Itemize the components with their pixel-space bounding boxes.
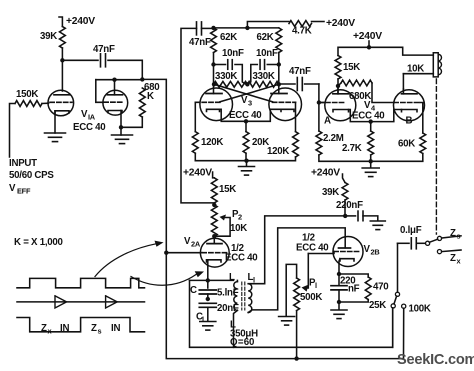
- svg-text:+240V: +240V: [311, 168, 340, 179]
- svg-text:2: 2: [238, 213, 242, 222]
- svg-text:120K: 120K: [267, 146, 289, 157]
- svg-text:10K: 10K: [407, 64, 424, 75]
- svg-text:V: V: [364, 244, 371, 255]
- svg-text:15K: 15K: [343, 62, 360, 73]
- svg-text:120K: 120K: [201, 137, 223, 148]
- svg-text:L: L: [229, 272, 235, 283]
- svg-text:Z: Z: [41, 323, 47, 334]
- svg-text:+240V: +240V: [353, 31, 382, 42]
- svg-text:+240V: +240V: [326, 18, 355, 29]
- svg-text:l: l: [253, 276, 255, 285]
- svg-text:4.7K: 4.7K: [292, 26, 312, 37]
- svg-text:10K: 10K: [230, 223, 247, 234]
- svg-text:Q = 60: Q = 60: [230, 337, 254, 348]
- svg-text:500K: 500K: [300, 292, 322, 303]
- svg-text:l: l: [315, 281, 317, 290]
- svg-text:+240V: +240V: [66, 16, 95, 27]
- svg-text:ECC 40: ECC 40: [225, 253, 257, 264]
- svg-text:Z: Z: [450, 228, 456, 239]
- svg-text:Z: Z: [91, 323, 97, 334]
- svg-text:ECC 40: ECC 40: [73, 122, 105, 133]
- svg-text:IA: IA: [88, 113, 96, 122]
- svg-text:10nF: 10nF: [222, 48, 244, 59]
- svg-text:2A: 2A: [191, 240, 201, 249]
- svg-text:l: l: [202, 315, 204, 324]
- svg-text:2B: 2B: [371, 248, 380, 257]
- svg-text:SeekIC.com: SeekIC.com: [397, 352, 474, 368]
- svg-text:ECC 40: ECC 40: [296, 243, 328, 254]
- svg-text:V: V: [9, 183, 16, 194]
- svg-text:39K: 39K: [40, 31, 57, 42]
- svg-text:s: s: [457, 232, 461, 241]
- svg-text:150K: 150K: [16, 89, 38, 100]
- svg-text:ECC 40: ECC 40: [229, 110, 261, 121]
- svg-text:3: 3: [248, 99, 252, 108]
- svg-text:10nF: 10nF: [256, 48, 278, 59]
- svg-text:K: K: [147, 91, 154, 102]
- svg-text:nF: nF: [348, 284, 360, 295]
- svg-text:V: V: [241, 95, 248, 106]
- svg-text:V: V: [81, 109, 88, 120]
- svg-text:A: A: [324, 116, 331, 127]
- svg-text:50/60 CPS: 50/60 CPS: [9, 170, 54, 181]
- svg-text:330K: 330K: [253, 71, 275, 82]
- svg-text:47nF: 47nF: [189, 37, 211, 48]
- svg-text:15K: 15K: [219, 184, 236, 195]
- svg-text:K = X 1,000: K = X 1,000: [14, 237, 63, 248]
- svg-text:EFF: EFF: [17, 187, 31, 196]
- svg-text:20nF: 20nF: [217, 303, 239, 314]
- svg-text:62K: 62K: [220, 32, 237, 43]
- svg-text:62K: 62K: [257, 32, 274, 43]
- svg-text:s: s: [98, 327, 102, 336]
- svg-text:5.lnF: 5.lnF: [217, 288, 239, 299]
- svg-text:V: V: [364, 100, 371, 111]
- svg-text:2.7K: 2.7K: [342, 143, 362, 154]
- svg-text:2.2M: 2.2M: [323, 133, 344, 144]
- svg-text:330K: 330K: [215, 71, 237, 82]
- svg-text:25K: 25K: [369, 300, 386, 311]
- svg-text:0.lμF: 0.lμF: [400, 225, 422, 236]
- svg-text:39K: 39K: [322, 187, 339, 198]
- svg-text:C: C: [190, 285, 197, 296]
- svg-text:470: 470: [373, 282, 388, 293]
- svg-text:47nF: 47nF: [93, 44, 115, 55]
- svg-text:IN: IN: [111, 323, 120, 334]
- svg-text:Z: Z: [450, 253, 456, 264]
- svg-text:V: V: [184, 236, 191, 247]
- svg-text:IN: IN: [60, 323, 69, 334]
- svg-text:60K: 60K: [398, 139, 415, 150]
- svg-text:47nF: 47nF: [289, 66, 311, 77]
- svg-text:100K: 100K: [409, 304, 431, 315]
- svg-text:+240V: +240V: [183, 168, 212, 179]
- svg-text:220nF: 220nF: [336, 200, 363, 211]
- svg-text:B: B: [406, 116, 413, 127]
- svg-text:INPUT: INPUT: [9, 158, 37, 169]
- svg-text:ECC 40: ECC 40: [352, 111, 384, 122]
